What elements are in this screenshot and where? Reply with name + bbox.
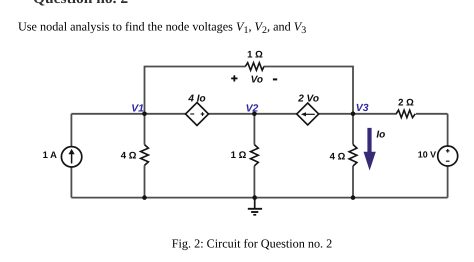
resistor 1ohm (V2 branch)	[251, 145, 259, 166]
svg-text:Fig. 2: Circuit for Question n: Fig. 2: Circuit for Question no. 2	[172, 236, 332, 250]
label + (Vo polarity)	[231, 75, 237, 81]
wire: left rail	[70, 114, 72, 198]
svg-text:V1: V1	[131, 103, 144, 114]
label - (Vo polarity)	[273, 78, 277, 80]
svg-text:2 Vo: 2 Vo	[297, 94, 319, 105]
dependent source 4Io (diamond, - +)	[186, 103, 209, 126]
svg-text:1 Ω: 1 Ω	[231, 150, 247, 161]
bottom junction dot (ground node)	[252, 195, 257, 200]
voltage source 10V	[438, 146, 458, 166]
svg-text:2 Ω: 2 Ω	[398, 97, 414, 108]
node V3 junction dot	[351, 112, 356, 117]
wire: V2 branch vertical	[253, 114, 255, 198]
svg-text:Vo: Vo	[251, 75, 263, 86]
resistor 4ohm (V1 branch)	[141, 145, 149, 166]
svg-text:V3: V3	[356, 103, 369, 114]
wire: V1 branch vertical	[144, 114, 146, 198]
svg-text:10 V: 10 V	[418, 149, 436, 159]
node V2 junction dot	[252, 112, 257, 117]
current source I1 1A	[61, 147, 81, 167]
ground symbol	[248, 198, 262, 215]
svg-text:4 Ω: 4 Ω	[330, 151, 346, 162]
node V1 junction dot	[142, 112, 147, 117]
svg-text:V2: V2	[246, 104, 259, 115]
wire: top branch (V1 up, across, down to V3)	[145, 67, 354, 114]
wire: bottom rail	[71, 197, 447, 199]
resistor 4ohm (V3 branch)	[349, 145, 357, 167]
dependent source 2Vo (diamond, left arrow)	[297, 103, 319, 125]
resistor 1ohm (top branch)	[245, 63, 264, 71]
resistor 2ohm (middle right horizontal)	[396, 110, 415, 118]
svg-text:1 Ω: 1 Ω	[247, 50, 263, 61]
svg-text:Question no. 2: Question no. 2	[33, 0, 128, 7]
svg-text:4 Ω: 4 Ω	[121, 150, 137, 161]
svg-text:1 A: 1 A	[43, 149, 57, 160]
wire: V3 branch vertical	[352, 114, 354, 198]
wire: right rail	[447, 114, 449, 198]
bottom junction dot (V1 branch)	[142, 195, 147, 200]
svg-text:Io: Io	[376, 129, 385, 140]
wire: middle horizontal segments	[71, 113, 447, 115]
svg-text:4 Io: 4 Io	[187, 94, 205, 105]
bottom junction dot (V3 branch)	[351, 195, 356, 200]
Io current arrow (navy, downward)	[364, 128, 376, 171]
